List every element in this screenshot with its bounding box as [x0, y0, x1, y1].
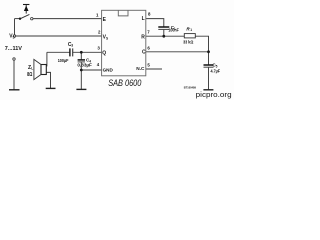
ground G4 (C5): [203, 89, 213, 91]
wire IC pin 8 to C1: [146, 19, 164, 27]
node junction dot C1/pin7 wire: [162, 35, 165, 38]
svg-text:4.7µF: 4.7µF: [211, 68, 221, 73]
capacitor C4 plates: [78, 59, 85, 61]
svg-text:S: S: [106, 36, 108, 40]
wire speaker bottom to ground: [46, 72, 50, 88]
wire switch output to IC pin 1: [33, 18, 101, 20]
svg-text:100µF: 100µF: [58, 58, 69, 64]
node junction dot on GND wire: [80, 69, 83, 72]
capacitor C1 plates: [158, 26, 169, 28]
svg-text:SAB 0600: SAB 0600: [108, 77, 142, 88]
wire GND junction to IC pin 4: [81, 69, 101, 71]
pushbutton actuator bar: [23, 4, 29, 6]
node junction dot on Q wire: [80, 51, 83, 54]
svg-text:BT100489: BT100489: [184, 86, 197, 90]
ground G2 (speaker): [46, 87, 56, 89]
loudspeaker driver rectangle: [41, 65, 46, 75]
wire C4 stem top: [80, 52, 82, 59]
svg-text:R: R: [141, 34, 145, 40]
svg-text:8Ω: 8Ω: [27, 72, 33, 78]
wire supply minus terminal down to ground: [13, 60, 15, 89]
wire IC pin 5 stub: [146, 68, 162, 70]
svg-text:7...11V: 7...11V: [5, 46, 22, 52]
wire C1 bottom stem: [163, 30, 165, 37]
pushbutton actuator arrowhead: [24, 6, 29, 12]
terminal supply minus circle: [13, 58, 15, 60]
node junction dot pin6 wire: [207, 50, 210, 53]
switch S1 lever: [20, 14, 29, 18]
pushbutton actuator stem: [25, 5, 27, 14]
resistor R1 box: [184, 34, 195, 38]
wire IC pin 7 to R1: [146, 35, 185, 37]
svg-text:C: C: [142, 50, 146, 56]
capacitor C5 plates: [204, 64, 214, 66]
svg-text:GND: GND: [103, 68, 114, 74]
ground G1 (supply): [9, 89, 20, 91]
wire IC pin 6 to right column junction: [146, 51, 209, 53]
wire speaker top vertical riser: [45, 52, 48, 66]
svg-text:S: S: [13, 36, 15, 40]
wire corner to C3 left plate: [47, 51, 70, 53]
terminal Vs circle: [13, 35, 15, 37]
IC notch: [118, 10, 128, 16]
svg-text:100nF: 100nF: [168, 27, 179, 32]
IC U1 SAB 0600 box: [102, 10, 146, 76]
svg-text:Q: Q: [102, 50, 106, 56]
wire C4 stem bottom to ground: [80, 62, 82, 89]
svg-text:picpro.org: picpro.org: [196, 90, 232, 99]
svg-text:1: 1: [190, 28, 192, 32]
svg-text:0,33µF: 0,33µF: [77, 62, 92, 67]
wire R1 to right corner: [195, 36, 208, 64]
ground G3 (C4): [76, 88, 86, 90]
switch junction dot: [19, 18, 21, 20]
wire below C5 down to ground: [208, 67, 210, 89]
capacitor C3 plates: [69, 48, 71, 56]
svg-text:L: L: [142, 16, 145, 22]
svg-text:N.C: N.C: [136, 66, 144, 71]
wire vertical corner down to Vs terminal: [14, 19, 16, 35]
loudspeaker cone: [34, 59, 41, 79]
svg-text:3: 3: [71, 44, 73, 48]
switch contact circle: [31, 18, 33, 20]
wire switch left to corner: [15, 18, 21, 20]
wire Vs terminal to IC pin 2: [16, 35, 102, 37]
svg-text:L: L: [31, 67, 33, 71]
wire C3 right plate to IC pin 3: [73, 51, 102, 53]
svg-text:33 kΩ: 33 kΩ: [183, 40, 193, 46]
